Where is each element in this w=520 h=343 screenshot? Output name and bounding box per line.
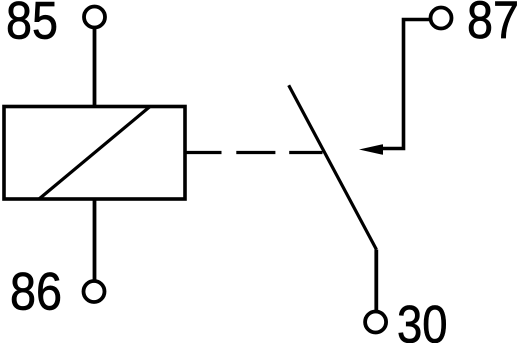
svg-text:85: 85 [6,0,58,51]
wire 87 down to arrow [382,20,430,149]
terminal 87 [431,8,452,29]
svg-text:87: 87 [467,0,519,50]
svg-text:86: 86 [10,263,62,322]
terminal 30 [365,312,386,333]
switch blade [289,85,377,249]
arrowhead toward blade [359,144,383,155]
actuation dashed link [185,151,323,154]
wire coil to 86 [93,199,97,282]
wire blade to 30 [374,250,378,313]
relay coil K1 [4,107,185,200]
terminal 86 [84,281,105,302]
svg-text:30: 30 [397,295,448,343]
wire 85 to coil [93,28,97,109]
coil diagonal [39,107,150,200]
terminal 85 [84,7,105,28]
